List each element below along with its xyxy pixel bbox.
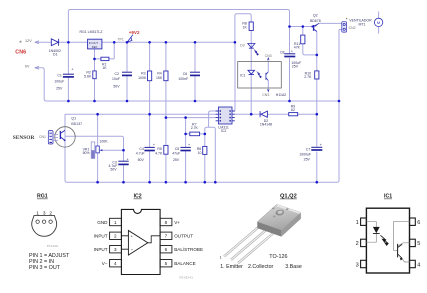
junction R6 bottom on bottom rail <box>204 181 207 184</box>
svg-text:PIN 2 = IN: PIN 2 = IN <box>29 259 54 265</box>
junction pot top on line A <box>96 113 99 116</box>
svg-text:0V: 0V <box>25 65 30 69</box>
DIP-8 body <box>121 209 160 274</box>
junction C6 top on +9V2 rail <box>194 41 197 44</box>
optocoupler phototransistor <box>266 72 268 81</box>
transistor Q1 symbol <box>60 130 65 141</box>
svg-text:5: 5 <box>417 241 420 247</box>
junction R7 branch on line C <box>184 116 187 119</box>
comparator IC2 chip body <box>216 107 235 124</box>
svg-text:+: + <box>126 156 129 161</box>
wire top supply rail loop <box>68 10 289 43</box>
capacitor C5 <box>180 147 190 150</box>
svg-text:RS 633-41: RS 633-41 <box>180 276 194 280</box>
wire opto transistor pins CN3 <box>267 61 269 90</box>
junction RG1 adjust node <box>93 58 96 61</box>
capacitor C1 <box>63 74 74 77</box>
wire line C R4 to IC2 pin3 <box>166 117 216 119</box>
junction C7 bottom on bottom rail <box>316 181 319 184</box>
wire R4 column x165.9 <box>165 42 167 117</box>
TO-92 package outline <box>32 215 57 236</box>
junction R9 to Q2 collector <box>316 113 319 116</box>
junction IC2 ground on bottom rail <box>214 181 217 184</box>
svg-text:1: 1 <box>114 220 117 225</box>
svg-text:5: 5 <box>165 261 168 266</box>
svg-text:OUTPUT: OUTPUT <box>174 234 193 239</box>
svg-text:TO-126: TO-126 <box>269 254 287 260</box>
resistor R6 <box>203 146 207 154</box>
wire line A collector to IC2 pin2 <box>65 113 216 115</box>
svg-text:4: 4 <box>114 261 117 266</box>
svg-text:M: M <box>377 20 380 25</box>
junction C2 bottom on 0V rail <box>126 100 129 103</box>
svg-text:GND: GND <box>97 220 108 225</box>
wire C8 column x290 <box>289 27 291 102</box>
wire R3 column x149.6 <box>149 42 151 114</box>
potentiometer 100K body <box>96 146 99 153</box>
trimmer VR1 slider graphic <box>91 142 95 159</box>
svg-text:SENSOR: SENSOR <box>13 135 35 141</box>
svg-text:INPUT: INPUT <box>94 234 108 239</box>
svg-text:BD678: BD678 <box>310 19 321 23</box>
junction dots group <box>67 25 340 183</box>
wire RG1 out rail +9V2 <box>102 41 235 43</box>
svg-text:8: 8 <box>165 220 168 225</box>
capacitor C2 <box>122 72 132 75</box>
wire R11 branch <box>303 27 317 55</box>
svg-text:1K: 1K <box>243 25 248 29</box>
DIP-6 body <box>366 208 409 273</box>
svg-text:RG1 LM317LZ: RG1 LM317LZ <box>80 30 104 34</box>
svg-text:25V: 25V <box>292 65 299 69</box>
junction supply to Q2 base line <box>288 25 291 28</box>
resistor R11 <box>301 35 305 44</box>
svg-text:D3: D3 <box>240 43 245 47</box>
svg-text:100nF: 100nF <box>178 77 188 81</box>
wire C2 column x127 <box>126 42 128 101</box>
svg-text:RG1: RG1 <box>37 194 48 200</box>
optocoupler internal LED <box>248 70 255 74</box>
svg-text:PIN 3 = OUT: PIN 3 = OUT <box>29 265 61 271</box>
svg-text:2.Collector: 2.Collector <box>248 264 274 270</box>
junction +9V2 rail to IC1 branch <box>234 41 237 44</box>
connector CN2 <box>342 22 347 32</box>
svg-text:3.Base: 3.Base <box>285 264 302 270</box>
svg-text:IC2: IC2 <box>134 194 142 200</box>
wire IC2 pin8 up to +9V2 <box>234 42 236 111</box>
transistor Q2 <box>314 23 319 31</box>
wire RG1 adj down <box>95 42 115 59</box>
svg-text:50V: 50V <box>138 158 145 162</box>
capacitor C4 <box>144 147 154 150</box>
wire Q2 emitter to CN2 <box>319 22 342 24</box>
junction pot bottom on bottom rail <box>96 181 99 184</box>
svg-text:+: + <box>291 49 294 54</box>
svg-text:4.7K: 4.7K <box>155 151 163 155</box>
wire C3 column x123.5 <box>123 150 125 182</box>
connector CN1 <box>48 131 58 144</box>
DIP-6 pin numbers <box>356 220 421 268</box>
svg-text:CN3: CN3 <box>262 93 269 97</box>
svg-text:2: 2 <box>114 234 117 239</box>
IC1 internal phototransistor wiring <box>393 222 409 262</box>
svg-text:C8: C8 <box>280 51 285 55</box>
wire IC2 pin1 to ground link <box>209 111 216 127</box>
wire bottom rail y182.2 <box>67 30 339 183</box>
svg-text:1: 1 <box>220 256 222 260</box>
svg-text:C2: C2 <box>115 72 120 76</box>
junction R4 top on +9V2 rail <box>165 41 168 44</box>
connector pin CN3 top <box>268 58 270 60</box>
DIP-8 pin numbers <box>114 220 168 266</box>
regulator RG1 box <box>88 39 102 49</box>
svg-text:R3: R3 <box>141 71 146 75</box>
motor MT1 <box>374 18 382 26</box>
wire R6 column x204.8 <box>204 134 206 182</box>
junction R4 bottom line C <box>165 116 168 119</box>
svg-text:1N4148: 1N4148 <box>260 123 272 127</box>
junction C8 bottom on 0V rail <box>288 100 291 103</box>
junction R1 top on +9V2 rail <box>113 41 116 44</box>
wire R2 column <box>94 59 96 101</box>
junction TP1 node on +9V2 rail <box>126 41 129 44</box>
svg-text:2.7K: 2.7K <box>304 75 312 79</box>
wire Q2 collector column x316.8 <box>316 32 318 183</box>
svg-text:BD137: BD137 <box>71 122 82 126</box>
svg-text:100uF: 100uF <box>54 80 64 84</box>
wire bracket to R8 D3 opto column x251.2 <box>235 14 251 43</box>
pin1 mark ventilador <box>346 18 347 19</box>
svg-text:V+: V+ <box>174 220 180 225</box>
resistor R2 <box>93 71 96 79</box>
IC1 internal LED wiring <box>366 222 376 243</box>
svg-text:D1: D1 <box>53 53 58 57</box>
junction R2 bottom on 0V rail <box>93 100 96 103</box>
svg-text:1: 1 <box>36 210 39 216</box>
svg-text:62: 62 <box>291 108 295 112</box>
svg-text:C1: C1 <box>57 74 62 78</box>
wire 0V input and ground rail y101 <box>35 68 339 101</box>
wire Q1 emitter to wiper node <box>65 136 124 150</box>
svg-text:6: 6 <box>417 220 420 226</box>
svg-text:BALANCE: BALANCE <box>174 261 195 266</box>
junction R3 top on +9V2 rail <box>148 41 151 44</box>
capacitor C8 <box>284 54 295 57</box>
wire VR1 wiper line <box>101 149 124 151</box>
svg-text:1000uF: 1000uF <box>299 152 311 156</box>
resistor R7 <box>190 132 200 136</box>
svg-text:+: + <box>188 142 191 147</box>
svg-text:4: 4 <box>417 262 420 268</box>
potentiometer wiper arrow <box>100 149 103 151</box>
svg-text:5.6K: 5.6K <box>84 75 92 79</box>
TO-126 body <box>257 204 301 236</box>
svg-text:15K: 15K <box>156 76 163 80</box>
wire CN2 lower pin down <box>339 29 342 31</box>
svg-text:IC1: IC1 <box>384 194 392 200</box>
resistor R4 <box>164 71 168 81</box>
svg-text:47uF: 47uF <box>172 151 180 155</box>
svg-text:+: + <box>71 67 74 72</box>
junction R7 right node <box>204 133 207 136</box>
svg-text:7: 7 <box>165 234 168 239</box>
wire 12V input to D1 anode <box>35 41 51 43</box>
DIP-8 side labels <box>94 220 203 266</box>
junction R11 top <box>302 25 305 28</box>
wire vertical C1 column x68.4 <box>67 42 69 101</box>
svg-text:2: 2 <box>49 210 52 216</box>
svg-text:PIN 1 = ADJUST: PIN 1 = ADJUST <box>29 253 70 259</box>
diode D2 <box>260 111 267 117</box>
testpoint TP1 arrow <box>127 35 133 42</box>
junction R5 bottom on bottom rail <box>165 181 168 184</box>
svg-text:3: 3 <box>43 210 46 216</box>
svg-text:TP1: TP1 <box>117 37 123 41</box>
svg-text:+: + <box>131 234 134 239</box>
optocoupler coupling arrows <box>257 72 262 78</box>
svg-text:Q2: Q2 <box>313 13 318 17</box>
TO-126 legs <box>224 226 274 263</box>
svg-text:CN3: CN3 <box>265 54 272 58</box>
svg-text:100K: 100K <box>99 140 108 144</box>
svg-text:50V: 50V <box>113 85 120 89</box>
resistor R1 <box>101 57 109 60</box>
junction D1 cathode node <box>67 41 70 44</box>
DIP-6 pin boxes <box>361 218 416 268</box>
diode D1 <box>51 39 58 46</box>
svg-text:1. Emitter: 1. Emitter <box>220 264 243 270</box>
junction VR1 wiper node <box>122 149 125 152</box>
svg-text:H11A2: H11A2 <box>276 93 286 97</box>
svg-text:50V: 50V <box>110 168 117 172</box>
TO-92 lead holes <box>36 220 39 223</box>
resistor R10 <box>315 71 319 79</box>
svg-text:47K: 47K <box>294 45 301 49</box>
IC1 internal LED <box>373 227 380 233</box>
svg-text:100K: 100K <box>138 76 147 80</box>
svg-text:Q1,Q2: Q1,Q2 <box>280 194 297 200</box>
svg-text:PC134G: PC134G <box>47 244 59 248</box>
svg-text:10uF: 10uF <box>112 77 120 81</box>
junction CN2 return on 0V rail <box>338 100 341 103</box>
svg-text:2: 2 <box>356 241 359 247</box>
pin arrow 0V <box>35 66 39 69</box>
wire R5 column x165.9 <box>165 118 167 183</box>
capacitor C3 <box>118 161 128 164</box>
transistor Q1 circle <box>55 127 75 147</box>
junction C6 bottom on 0V rail <box>194 100 197 103</box>
svg-text:+9V2: +9V2 <box>129 30 140 35</box>
svg-text:+: + <box>320 142 323 147</box>
svg-text:1: 1 <box>356 220 359 226</box>
svg-text:50%: 50% <box>83 151 90 155</box>
op-amp triangle inside IC2 <box>128 231 147 256</box>
wire R7 leads <box>186 133 205 135</box>
resistor R9 <box>289 113 298 116</box>
svg-text:12V: 12V <box>25 39 32 43</box>
svg-text:25V: 25V <box>304 158 311 162</box>
svg-text:C7: C7 <box>306 147 311 151</box>
wire C6 column x195 <box>194 42 196 101</box>
svg-text:CN6: CN6 <box>15 50 26 56</box>
svg-text:+: + <box>153 142 156 147</box>
junction R3 bottom on line A <box>148 113 151 116</box>
connector pin CN3 bottom <box>268 89 270 91</box>
svg-text:25V: 25V <box>56 87 63 91</box>
junction Q2 base <box>311 26 313 28</box>
wire D1 cathode to node at x68.4 <box>59 41 88 43</box>
junction C1 bottom on 0V rail <box>67 100 70 103</box>
svg-text:2.7K: 2.7K <box>191 126 199 130</box>
junction C4 bottom on bottom rail <box>148 181 151 184</box>
svg-text:REF: REF <box>92 45 98 49</box>
capacitor C7 <box>311 147 322 150</box>
junction C5 bottom on bottom rail <box>184 181 187 184</box>
svg-text:CN1: CN1 <box>39 135 46 139</box>
wire Q2 base from top rail <box>290 26 314 28</box>
resistor R8 <box>249 22 253 31</box>
svg-text:−: − <box>131 248 134 253</box>
svg-text:1K: 1K <box>102 66 107 70</box>
junction R7 left node <box>184 133 187 136</box>
capacitor C6 <box>190 72 200 75</box>
svg-text:10: 10 <box>198 151 202 155</box>
svg-text:R4: R4 <box>157 71 162 75</box>
wire R7 node up and over to rail x215.3 <box>205 127 216 182</box>
resistor R3 <box>148 71 152 81</box>
svg-text:Q1: Q1 <box>71 116 76 120</box>
wire C4 column x149.6 <box>149 114 151 182</box>
LED D3 emission arrows <box>254 50 259 56</box>
wire Q1 collector-emitter column x65 <box>65 114 67 182</box>
svg-text:25V: 25V <box>173 158 180 162</box>
svg-text:3: 3 <box>356 262 359 268</box>
pin arrow 12V <box>35 41 39 44</box>
svg-text:3: 3 <box>114 247 117 252</box>
wire VR1 pot column x97.6 <box>97 114 99 182</box>
svg-text:CN2: CN2 <box>349 26 356 30</box>
LED D3 <box>248 44 255 49</box>
svg-text:INPUT: INPUT <box>94 247 108 252</box>
svg-text:V−: V− <box>102 261 108 266</box>
junction opto LED cathode on output line <box>250 113 253 116</box>
resistor R5 <box>164 145 168 154</box>
svg-text:6: 6 <box>165 247 168 252</box>
svg-text:C6: C6 <box>183 72 188 76</box>
DIP-8 left pin boxes <box>110 218 172 267</box>
junction C3 bottom on bottom rail <box>122 181 125 184</box>
svg-text:IC1: IC1 <box>240 74 246 78</box>
IC1 phototransistor <box>398 244 403 261</box>
svg-text:BAL/STROBE: BAL/STROBE <box>174 247 203 252</box>
wire IC2 pin7 output line y114.2 <box>235 113 317 115</box>
junction R11 bottom to collector <box>316 54 319 57</box>
svg-text:IC2: IC2 <box>221 129 227 133</box>
pin square 12V <box>20 41 22 43</box>
wire motor leads <box>378 12 380 34</box>
svg-text:MT1: MT1 <box>359 23 366 27</box>
IC1 coupling arrows <box>380 235 388 245</box>
wire R7 left branch down x185.6 <box>185 118 187 183</box>
optocoupler IC1 box <box>238 62 282 88</box>
svg-text:4.7uF: 4.7uF <box>136 151 145 155</box>
